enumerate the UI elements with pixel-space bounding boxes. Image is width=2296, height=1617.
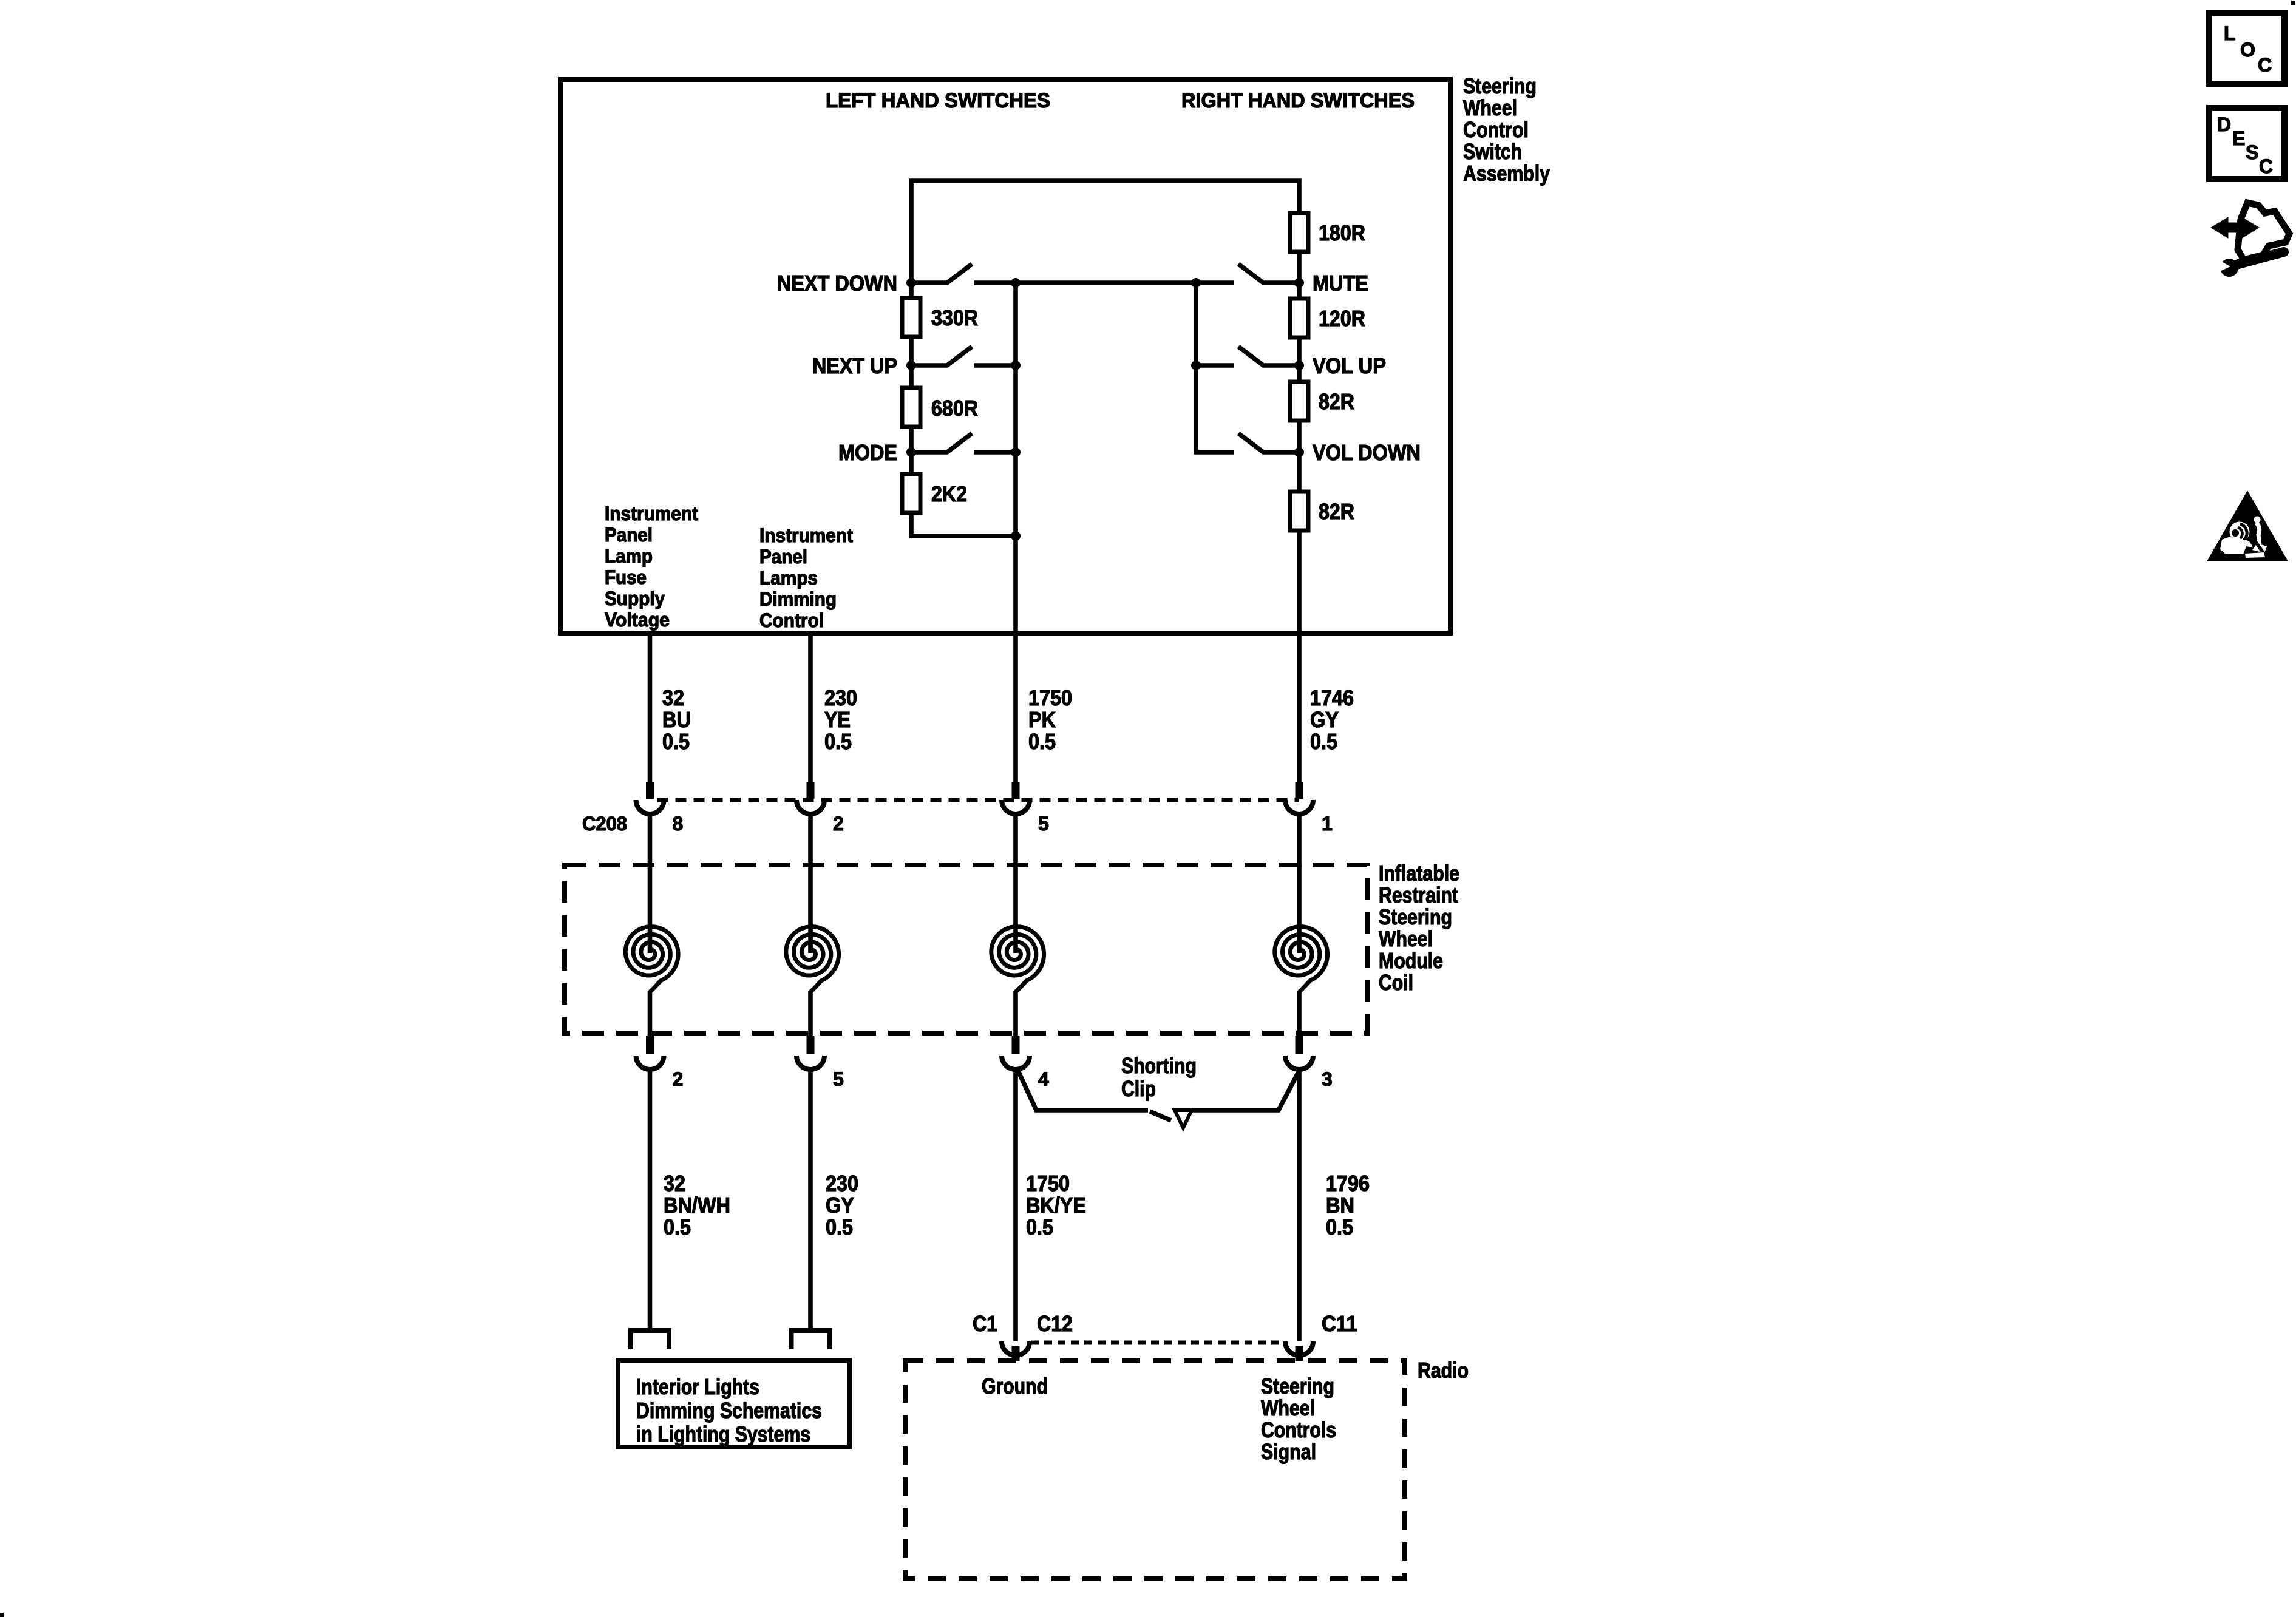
page corner marks — [2291, 1, 2295, 5]
svg-text:RIGHT HAND SWITCHES: RIGHT HAND SWITCHES — [1181, 89, 1415, 112]
svg-text:Fuse: Fuse — [605, 566, 647, 588]
junction wire3 row3 — [1011, 447, 1021, 457]
svg-text:Switch: Switch — [1463, 139, 1522, 164]
svg-text:0.5: 0.5 — [1310, 729, 1337, 754]
row1 fixed contact wire — [974, 280, 1234, 285]
svg-text:330R: 330R — [931, 305, 978, 330]
off-page terminal wire 2 — [792, 1331, 830, 1349]
svg-text:Module: Module — [1379, 948, 1443, 973]
outer box steering wheel control switch assembly — [560, 80, 1450, 633]
dashed box inflatable restraint steering wheel module coil — [565, 865, 1367, 1033]
junction wire3 row2 — [1011, 361, 1021, 370]
svg-text:Lamps: Lamps — [759, 567, 818, 589]
svg-text:Steering: Steering — [1379, 904, 1452, 929]
connector C1 C12 — [1002, 1341, 1030, 1355]
connector C11 — [1285, 1341, 1313, 1355]
svg-text:C: C — [2258, 54, 2272, 76]
svg-text:2: 2 — [673, 1068, 684, 1090]
switch VOL DOWN — [1238, 433, 1299, 452]
resistor 82R — [1290, 492, 1308, 531]
svg-text:230: 230 — [824, 685, 857, 710]
svg-text:Dimming Schematics: Dimming Schematics — [636, 1398, 822, 1423]
wire below second connector 3 — [1013, 1070, 1018, 1341]
svg-text:8: 8 — [673, 813, 684, 835]
right common vertical wire — [1194, 283, 1198, 455]
replace part icon arrow — [2211, 217, 2259, 238]
coil L3 — [991, 927, 1044, 992]
wire 2 below box — [808, 633, 813, 782]
svg-text:BN/WH: BN/WH — [664, 1193, 730, 1218]
svg-text:L: L — [2224, 22, 2236, 44]
svg-text:Control: Control — [759, 609, 824, 631]
svg-text:5: 5 — [833, 1068, 844, 1090]
svg-text:Instrument: Instrument — [759, 524, 853, 546]
replace part icon wrench — [2234, 252, 2284, 265]
resistor 2K2 — [902, 474, 920, 513]
junction common row1 — [1191, 278, 1201, 288]
svg-text:Instrument: Instrument — [605, 503, 698, 524]
svg-text:NEXT UP: NEXT UP — [812, 353, 897, 378]
svg-text:1: 1 — [1322, 813, 1333, 835]
svg-text:2: 2 — [833, 813, 844, 835]
svg-text:Coil: Coil — [1379, 970, 1413, 995]
svg-text:Wheel: Wheel — [1463, 95, 1517, 120]
switch NEXT DOWN — [911, 264, 972, 283]
svg-text:0.5: 0.5 — [662, 729, 690, 754]
replace part icon outline — [2238, 203, 2289, 260]
svg-text:Interior Lights: Interior Lights — [636, 1374, 759, 1399]
connector C208 terminal pin 2 — [807, 782, 815, 799]
svg-text:Assembly: Assembly — [1463, 161, 1550, 186]
svg-text:82R: 82R — [1319, 499, 1354, 524]
svg-text:Radio: Radio — [1418, 1358, 1469, 1383]
svg-text:Steering: Steering — [1463, 73, 1537, 98]
switch MUTE — [1238, 264, 1299, 283]
row3 VOL DOWN fixed contact wire — [1194, 450, 1234, 455]
left chain bottom wire — [909, 534, 1016, 538]
radio dashed box — [905, 1361, 1405, 1579]
svg-text:YE: YE — [824, 707, 851, 732]
svg-text:5: 5 — [1038, 813, 1049, 835]
svg-text:Control: Control — [1463, 117, 1529, 142]
svg-text:1796: 1796 — [1326, 1171, 1370, 1196]
row2 VOL UP fixed contact wire — [1196, 363, 1234, 368]
resistor 180R — [1290, 213, 1308, 252]
coil connector terminal pin 5 — [807, 1036, 815, 1054]
svg-text:2K2: 2K2 — [931, 481, 967, 506]
svg-text:VOL UP: VOL UP — [1313, 353, 1386, 378]
svg-text:Voltage: Voltage — [605, 609, 670, 631]
wire below second connector 2 — [808, 1070, 813, 1331]
resistor 82R — [1290, 382, 1308, 421]
svg-text:0.5: 0.5 — [826, 1215, 853, 1239]
svg-text:C208: C208 — [582, 813, 627, 835]
svg-text:Ground: Ground — [982, 1374, 1048, 1398]
resistor 330R — [902, 298, 920, 337]
coil L4 — [1275, 927, 1328, 992]
LOC icon — [2209, 13, 2284, 84]
svg-text:Controls: Controls — [1261, 1417, 1336, 1442]
svg-text:180R: 180R — [1319, 220, 1365, 245]
wire below second connector 1 — [648, 1070, 653, 1331]
svg-text:120R: 120R — [1319, 306, 1365, 331]
svg-text:0.5: 0.5 — [1026, 1215, 1053, 1239]
svg-text:Steering: Steering — [1261, 1374, 1334, 1398]
coil connector terminal pin 3 — [1296, 1036, 1303, 1054]
svg-text:Signal: Signal — [1261, 1439, 1316, 1464]
svg-text:GY: GY — [1310, 707, 1339, 732]
svg-text:MUTE: MUTE — [1313, 271, 1368, 296]
svg-text:D: D — [2217, 114, 2231, 135]
svg-text:GY: GY — [826, 1193, 854, 1218]
svg-text:in Lighting Systems: in Lighting Systems — [636, 1422, 810, 1446]
row3 MODE fixed contact wire — [974, 450, 1016, 455]
svg-text:1746: 1746 — [1310, 685, 1354, 710]
svg-text:BU: BU — [662, 707, 691, 732]
svg-text:MODE: MODE — [838, 440, 897, 465]
svg-text:VOL DOWN: VOL DOWN — [1313, 440, 1421, 465]
row2 NEXT UP fixed contact wire — [974, 363, 1016, 368]
svg-text:Wheel: Wheel — [1379, 926, 1433, 951]
interior lights box — [618, 1360, 849, 1447]
coil connector terminal pin 4 — [1012, 1036, 1020, 1054]
svg-text:S: S — [2246, 141, 2258, 163]
dotted line C12 to C11 — [1031, 1341, 1284, 1345]
svg-text:680R: 680R — [931, 396, 978, 421]
resistor 680R — [902, 388, 920, 427]
switch VOL UP — [1238, 347, 1299, 365]
svg-text:0.5: 0.5 — [664, 1215, 691, 1239]
svg-text:LEFT HAND SWITCHES: LEFT HAND SWITCHES — [826, 89, 1050, 112]
switch NEXT UP — [911, 347, 972, 365]
coil connector terminal pin 2 — [646, 1036, 654, 1054]
svg-text:C12: C12 — [1037, 1311, 1073, 1336]
connector C208 terminal pin 1 — [1296, 782, 1303, 799]
svg-text:NEXT DOWN: NEXT DOWN — [777, 271, 897, 296]
svg-text:32: 32 — [662, 685, 684, 710]
wire 3 vertical — [1013, 283, 1018, 782]
coil L2 — [786, 927, 839, 992]
svg-text:C11: C11 — [1322, 1311, 1357, 1336]
junction wire3 row1 — [1011, 278, 1021, 288]
svg-text:E: E — [2232, 127, 2245, 149]
connector C208 terminal pin 8 — [646, 782, 654, 799]
svg-text:PK: PK — [1028, 707, 1056, 732]
svg-text:Dimming: Dimming — [759, 588, 837, 610]
right chain wire — [1297, 179, 1302, 783]
DESC icon — [2209, 108, 2284, 179]
svg-text:C: C — [2259, 155, 2273, 177]
svg-text:0.5: 0.5 — [1326, 1215, 1353, 1239]
svg-text:230: 230 — [826, 1171, 858, 1196]
svg-text:Shorting: Shorting — [1121, 1053, 1197, 1078]
svg-text:O: O — [2240, 39, 2255, 61]
connector C208 dashed line — [657, 798, 1300, 802]
svg-text:3: 3 — [1322, 1068, 1333, 1090]
svg-text:4: 4 — [1038, 1068, 1049, 1090]
svg-text:1750: 1750 — [1028, 685, 1072, 710]
junction wire3 chain bottom — [1011, 531, 1021, 541]
svg-text:1750: 1750 — [1026, 1171, 1070, 1196]
switch MODE — [911, 433, 972, 452]
svg-text:Inflatable: Inflatable — [1379, 861, 1459, 886]
coil L1 — [625, 927, 678, 992]
svg-text:Restraint: Restraint — [1379, 883, 1458, 907]
junction common row2 — [1191, 361, 1201, 370]
svg-text:32: 32 — [664, 1171, 685, 1196]
connector C208 terminal pin 5 — [1012, 782, 1020, 799]
wire below second connector 4 — [1297, 1070, 1302, 1341]
left chain wire — [909, 283, 914, 536]
off-page terminal wire 1 — [631, 1331, 669, 1349]
svg-text:0.5: 0.5 — [824, 729, 852, 754]
svg-text:Panel: Panel — [759, 546, 807, 568]
svg-text:BN: BN — [1326, 1193, 1354, 1218]
svg-text:Wheel: Wheel — [1261, 1395, 1315, 1420]
svg-text:0.5: 0.5 — [1028, 729, 1056, 754]
wire 1 below box — [648, 633, 653, 782]
svg-text:C1: C1 — [973, 1311, 997, 1336]
svg-text:Lamp: Lamp — [605, 545, 653, 567]
svg-text:Panel: Panel — [605, 524, 653, 546]
svg-text:82R: 82R — [1319, 389, 1354, 414]
svg-text:Clip: Clip — [1121, 1076, 1156, 1101]
resistor 120R — [1290, 299, 1308, 337]
svg-text:BK/YE: BK/YE — [1026, 1193, 1086, 1218]
svg-text:Supply: Supply — [605, 588, 665, 609]
top bus wire — [909, 179, 914, 283]
shorting clip — [1017, 1070, 1148, 1110]
